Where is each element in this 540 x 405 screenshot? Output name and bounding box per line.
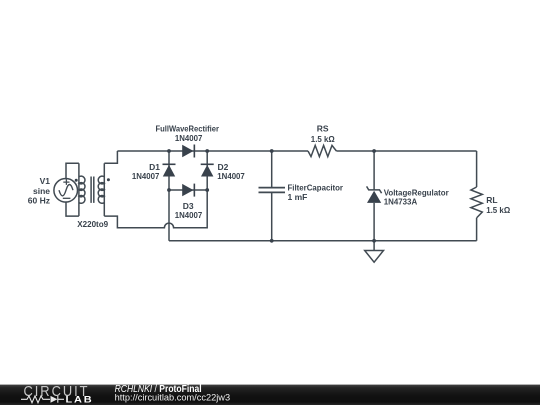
resistor RS zigzag xyxy=(308,145,336,156)
resistor RL zigzag xyxy=(471,187,482,218)
transformer core xyxy=(91,177,94,203)
wire zener branch bottom xyxy=(373,203,375,241)
svg-text:V1: V1 xyxy=(40,176,51,186)
wire top rail left segment xyxy=(117,150,308,152)
zener VoltageRegulator cathode bar xyxy=(367,186,382,193)
wire bridge middle rail xyxy=(169,189,207,191)
transformer secondary phase dot xyxy=(107,178,110,181)
svg-text:1N4007: 1N4007 xyxy=(175,210,203,220)
CircuitLab logo LAB text xyxy=(66,394,94,405)
wire D2 branch vertical xyxy=(206,151,208,190)
wire top rail right segment xyxy=(336,150,476,152)
wire bottom rail xyxy=(169,240,477,242)
svg-text:60 Hz: 60 Hz xyxy=(28,195,50,205)
footer url text xyxy=(115,392,231,403)
junction node top rail / D1 branch xyxy=(167,149,171,153)
label D3 xyxy=(175,201,203,220)
wire ground stem xyxy=(373,241,375,251)
svg-text:RS: RS xyxy=(317,123,329,133)
zener VoltageRegulator triangle xyxy=(367,191,381,203)
label V1 value xyxy=(28,176,50,206)
wire zener branch top xyxy=(373,151,375,190)
label FullWaveRectifier xyxy=(155,124,219,143)
wire RL branch bottom xyxy=(476,218,478,241)
svg-text:X220to9: X220to9 xyxy=(77,219,108,229)
svg-text:sine: sine xyxy=(33,186,50,196)
junction node bottom rail / capacitor branch xyxy=(270,239,274,243)
label D2 xyxy=(217,162,245,181)
transformer X220to9 secondary winding xyxy=(98,163,104,216)
svg-text:LAB: LAB xyxy=(66,394,94,405)
label RL xyxy=(486,195,510,215)
wire secondary top to top rail xyxy=(104,151,117,163)
wire capacitor branch bottom xyxy=(271,193,273,241)
voltage source V1 xyxy=(54,179,78,203)
svg-text:1 mF: 1 mF xyxy=(288,192,308,202)
diode D3 xyxy=(182,184,195,197)
label VoltageRegulator xyxy=(384,187,450,206)
svg-text:RL: RL xyxy=(486,195,497,205)
junction node bottom rail / zener branch xyxy=(372,239,376,243)
svg-text:1N4733A: 1N4733A xyxy=(384,197,418,207)
wire D1 branch vertical xyxy=(168,151,170,241)
svg-text:http://circuitlab.com/cc22jw3: http://circuitlab.com/cc22jw3 xyxy=(115,392,231,403)
svg-text:1N4007: 1N4007 xyxy=(217,171,245,181)
diode FullWaveRectifier (top) xyxy=(182,145,195,158)
svg-text:1N4007: 1N4007 xyxy=(175,133,203,143)
transformer primary phase dot xyxy=(75,179,78,182)
ground symbol xyxy=(365,251,384,263)
junction node middle rail / D2 branch xyxy=(205,188,209,192)
wire V1 bottom lead xyxy=(66,201,79,216)
wire secondary bottom to bridge (with hop over D1 branch) xyxy=(104,190,207,228)
wire capacitor branch top xyxy=(271,151,273,187)
svg-text:1.5 kΩ: 1.5 kΩ xyxy=(486,205,510,215)
footer circuit title text xyxy=(115,384,202,395)
wire RL branch top xyxy=(476,151,478,187)
footer bar xyxy=(0,385,540,405)
label D1 xyxy=(132,162,160,181)
junction node top rail / zener branch xyxy=(372,149,376,153)
svg-text:FilterCapacitor: FilterCapacitor xyxy=(288,182,344,192)
diode D2 xyxy=(201,164,214,177)
junction node top rail / D2 branch xyxy=(205,149,209,153)
junction node top rail / capacitor branch xyxy=(270,149,274,153)
label RS xyxy=(311,123,335,144)
svg-text:1.5 kΩ: 1.5 kΩ xyxy=(311,134,335,144)
CircuitLab logo CIRCUIT text xyxy=(24,384,90,400)
svg-text:1N4007: 1N4007 xyxy=(132,171,160,181)
junction node middle rail / D1 branch xyxy=(167,188,171,192)
CircuitLab logo resistor-diode symbol xyxy=(21,396,64,403)
label FilterCapacitor xyxy=(288,182,344,202)
wire V1 top lead xyxy=(66,163,79,179)
diode D1 xyxy=(163,164,176,177)
transformer X220to9 primary winding xyxy=(79,163,85,216)
capacitor FilterCapacitor plates xyxy=(259,188,286,193)
